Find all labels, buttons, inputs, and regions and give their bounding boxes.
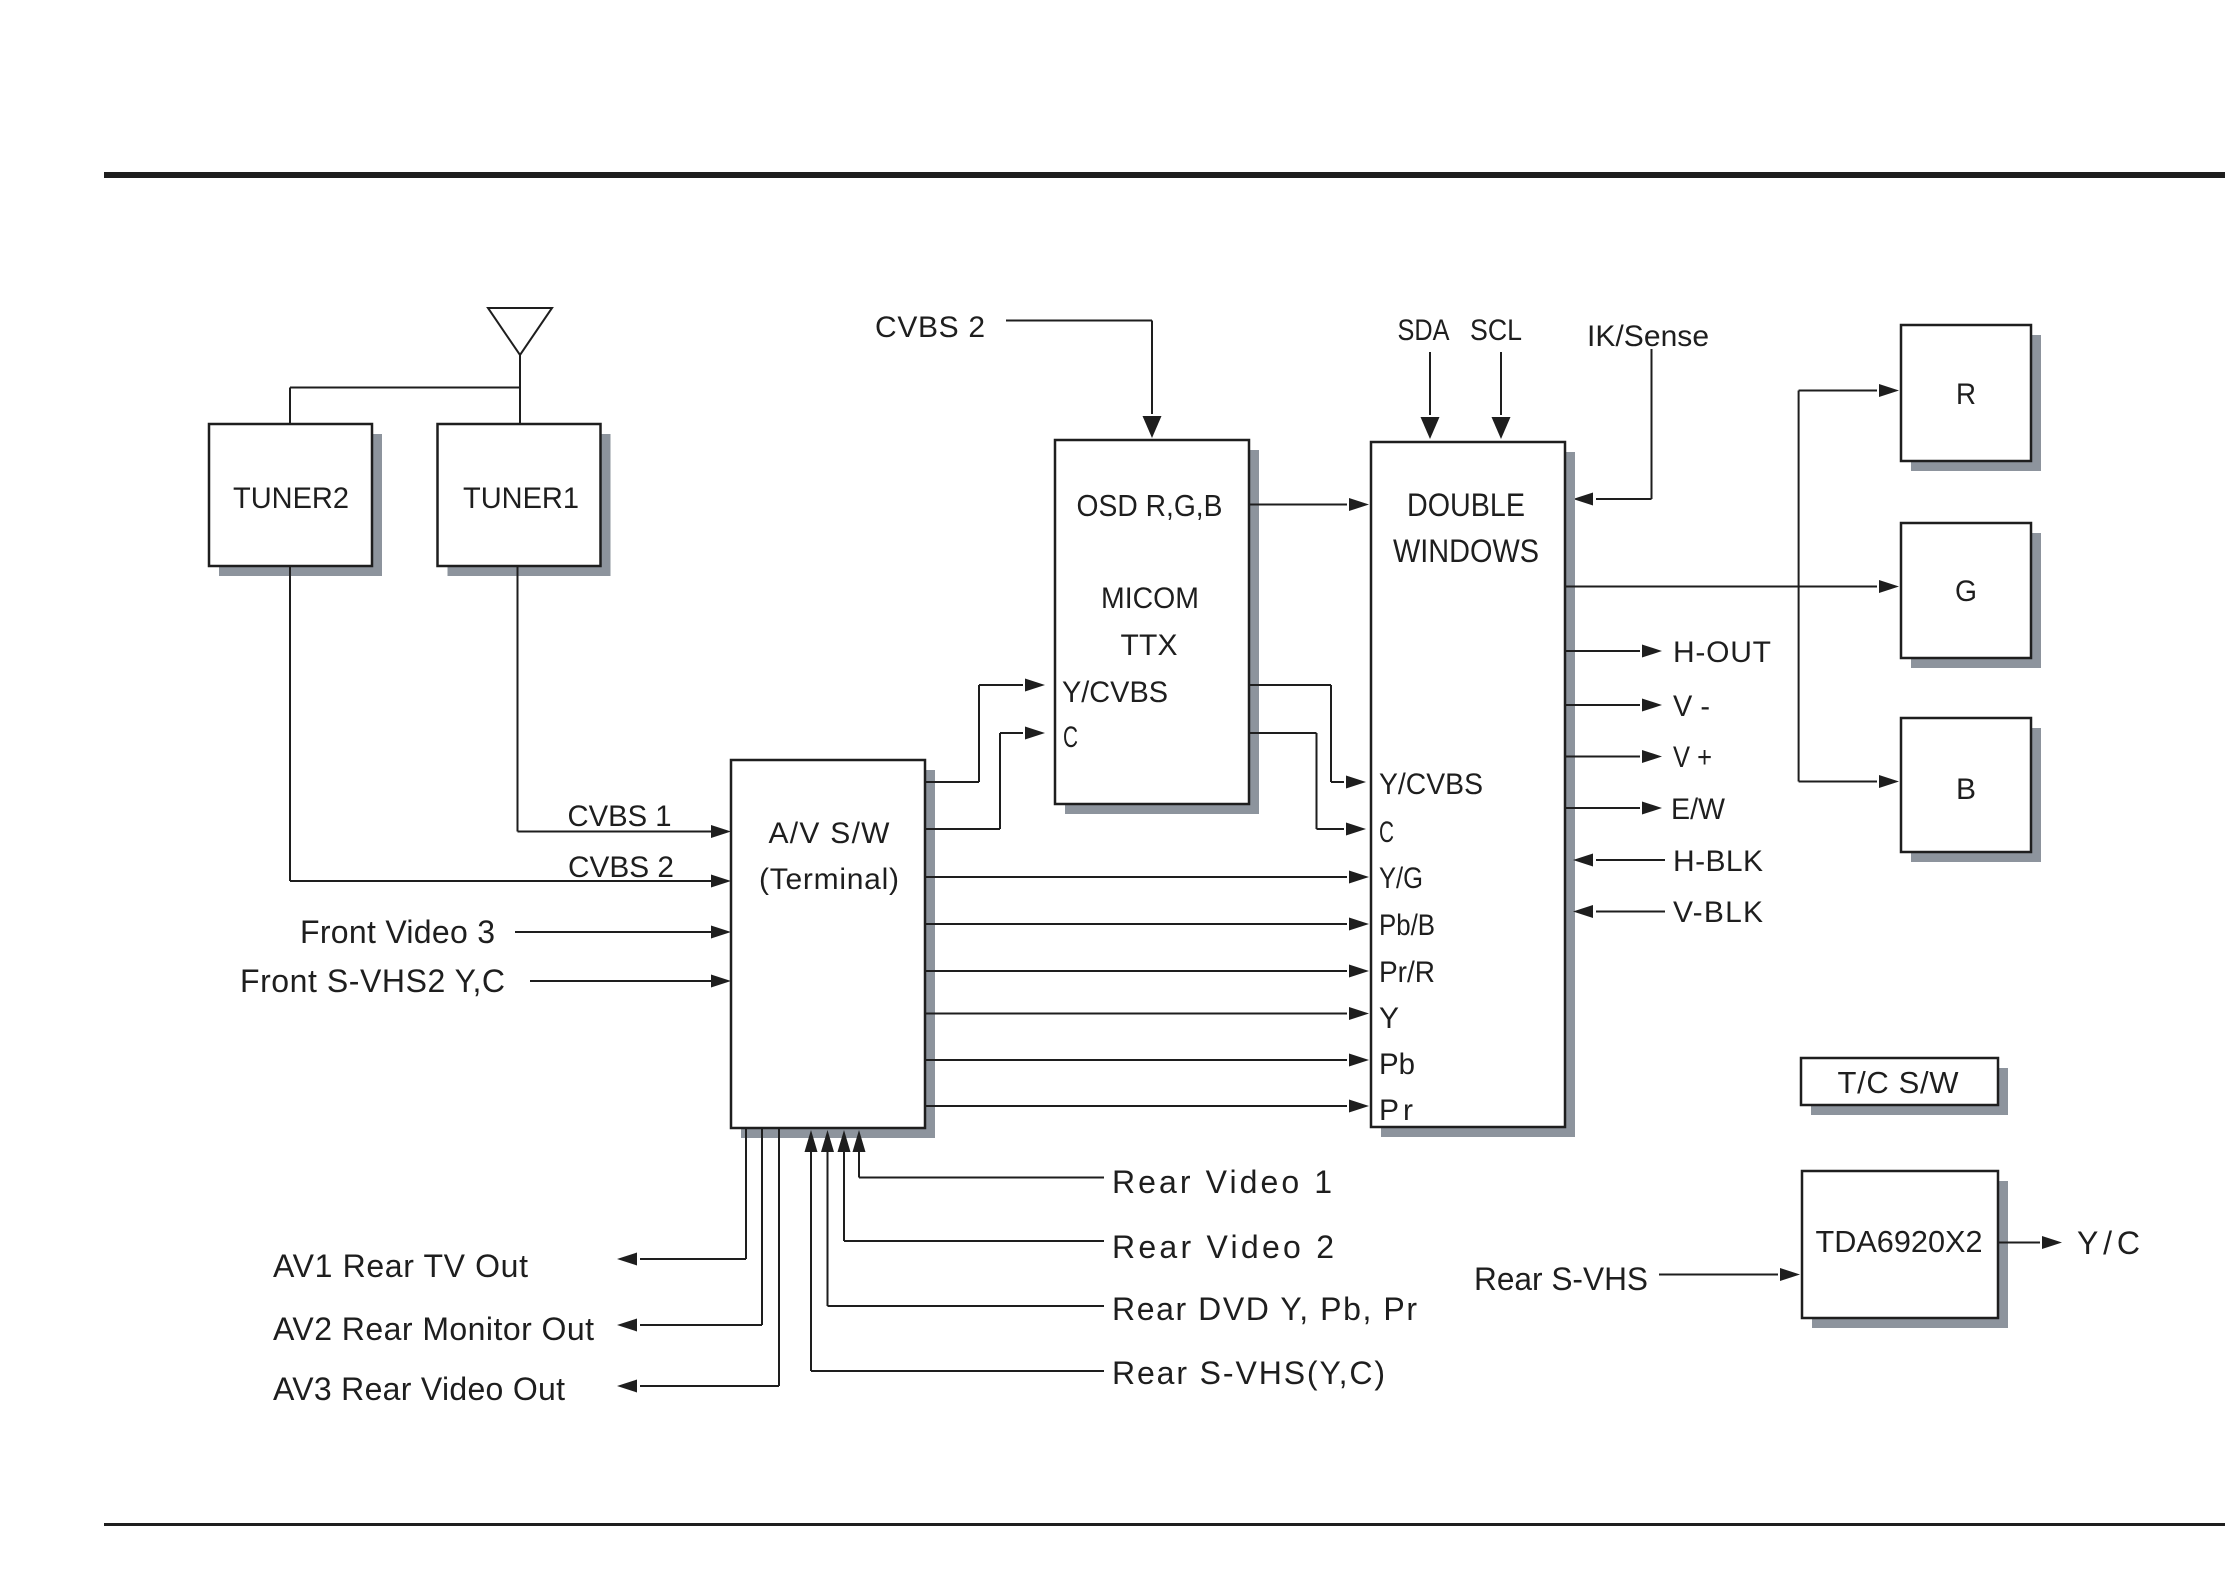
svg-text:Y/C: Y/C — [2077, 1225, 2140, 1261]
wire antenna splitter to TUNER2 — [290, 388, 520, 425]
svg-text:Y/CVBS: Y/CVBS — [1062, 676, 1168, 709]
block A/V S/W (Terminal) — [731, 760, 935, 1138]
antenna symbol — [488, 308, 552, 424]
svg-text:C: C — [1063, 721, 1078, 754]
wire TUNER1 down — [517, 566, 519, 832]
svg-text:Rear S-VHS: Rear S-VHS — [1474, 1261, 1648, 1297]
wire Front S-VHS2 Y,C — [530, 975, 731, 988]
wire SCL into DOUBLE top — [1492, 352, 1511, 439]
wire R line — [1799, 384, 1899, 397]
wire Pb — [925, 1054, 1369, 1067]
label Front S-VHS2 Y,C — [240, 963, 505, 999]
wire CVBS 1 into A/V S/W — [518, 825, 732, 838]
wire OSD R,G,B to DOUBLE — [1249, 498, 1369, 511]
svg-text:CVBS 2: CVBS 2 — [568, 851, 674, 884]
block G — [1901, 523, 2041, 668]
block T/C S/W — [1801, 1058, 2008, 1115]
svg-text:H-OUT: H-OUT — [1673, 636, 1771, 669]
label V-BLK — [1673, 896, 1763, 929]
svg-text:Front S-VHS2 Y,C: Front S-VHS2 Y,C — [240, 963, 505, 999]
label Front Video 3 — [300, 914, 495, 950]
block DOUBLE WINDOWS — [1371, 442, 1575, 1137]
wire Rear S-VHS(Y,C) input — [805, 1130, 1105, 1371]
svg-text:V-BLK: V-BLK — [1673, 896, 1763, 929]
svg-text:Pr: Pr — [1379, 1094, 1413, 1127]
label Rear DVD Y, Pb, Pr — [1112, 1291, 1417, 1327]
svg-text:A/V S/W: A/V S/W — [769, 817, 891, 850]
svg-text:TUNER1: TUNER1 — [463, 482, 579, 515]
wire V- — [1565, 699, 1662, 712]
block R — [1901, 325, 2041, 471]
svg-text:T/C S/W: T/C S/W — [1838, 1065, 1960, 1100]
label H-OUT — [1673, 636, 1771, 669]
wire SDA into DOUBLE top — [1421, 352, 1440, 439]
svg-text:E/W: E/W — [1671, 793, 1726, 826]
svg-text:Pb: Pb — [1379, 1048, 1415, 1081]
svg-text:CVBS 2: CVBS 2 — [875, 311, 985, 344]
label H-BLK — [1673, 845, 1763, 878]
wire H-BLK into DOUBLE — [1573, 854, 1665, 867]
svg-text:C: C — [1379, 816, 1394, 849]
svg-text:SCL: SCL — [1470, 314, 1522, 347]
wire Pr/R — [925, 965, 1369, 978]
wire MICOM C out to DOUBLE — [1249, 733, 1366, 836]
wire Pr — [925, 1100, 1369, 1113]
svg-text:IK/Sense: IK/Sense — [1587, 320, 1709, 353]
wire G line — [1565, 580, 1899, 593]
svg-text:B: B — [1956, 773, 1976, 806]
svg-text:V +: V + — [1673, 741, 1712, 774]
wire CVBS 2 into MICOM top — [1006, 321, 1162, 439]
svg-text:AV1 Rear TV Out: AV1 Rear TV Out — [273, 1248, 528, 1284]
svg-text:Rear Video 1: Rear Video 1 — [1112, 1164, 1332, 1200]
svg-text:TTX: TTX — [1121, 629, 1178, 662]
label CVBS 1 — [568, 800, 672, 833]
label SDA — [1398, 314, 1450, 347]
label IK/Sense — [1587, 320, 1709, 353]
wire Y — [925, 1007, 1369, 1020]
wire MICOM Y/CVBS out to DOUBLE — [1249, 685, 1366, 789]
block MICOM / TTX — [1055, 440, 1259, 814]
label Rear S-VHS — [1474, 1261, 1648, 1297]
svg-text:V -: V - — [1673, 690, 1710, 723]
wire IK/Sense into DOUBLE — [1573, 349, 1652, 506]
svg-text:SDA: SDA — [1398, 314, 1450, 347]
svg-text:TDA6920X2: TDA6920X2 — [1816, 1224, 1983, 1259]
svg-text:Y/CVBS: Y/CVBS — [1379, 768, 1483, 801]
wire V-BLK into DOUBLE — [1573, 905, 1665, 918]
svg-text:Rear S-VHS(Y,C): Rear S-VHS(Y,C) — [1112, 1355, 1385, 1391]
svg-text:AV3 Rear Video Out: AV3 Rear Video Out — [273, 1371, 565, 1407]
svg-text:(Terminal): (Terminal) — [759, 863, 899, 896]
label AV2 Rear Monitor Out — [273, 1311, 594, 1347]
svg-text:Rear Video 2: Rear Video 2 — [1112, 1229, 1334, 1265]
label Rear S-VHS(Y,C) — [1112, 1355, 1385, 1391]
wire A/V S/W Y/CVBS to MICOM — [925, 679, 1045, 783]
wire H-OUT — [1565, 645, 1662, 658]
label CVBS 2 — [568, 851, 674, 884]
wire Rear DVD input — [821, 1130, 1104, 1306]
label V+ — [1673, 741, 1712, 774]
wire Rear S-VHS into TDA6920X2 — [1659, 1268, 1800, 1281]
block TDA6920X2 — [1802, 1171, 2008, 1328]
svg-text:G: G — [1955, 575, 1977, 608]
block TUNER2 — [209, 424, 382, 576]
svg-text:Pr/R: Pr/R — [1379, 956, 1435, 989]
wire CVBS 2 into A/V S/W — [290, 875, 731, 888]
wire AV2 Rear Monitor Out — [617, 1128, 762, 1332]
svg-text:Front Video 3: Front Video 3 — [300, 914, 495, 950]
label SCL — [1470, 314, 1522, 347]
svg-text:OSD R,G,B: OSD R,G,B — [1077, 488, 1223, 523]
wire AV1 Rear TV Out — [617, 1128, 746, 1266]
label Rear Video 2 — [1112, 1229, 1334, 1265]
wire Y/G — [925, 871, 1369, 884]
label Rear Video 1 — [1112, 1164, 1332, 1200]
top rule — [104, 172, 2225, 178]
block B — [1901, 718, 2041, 862]
wire B line — [1799, 775, 1899, 788]
svg-text:H-BLK: H-BLK — [1673, 845, 1763, 878]
bottom rule — [104, 1523, 2225, 1526]
wire Rear Video 1 input — [853, 1130, 1105, 1178]
svg-text:WINDOWS: WINDOWS — [1393, 533, 1539, 569]
svg-text:AV2 Rear Monitor Out: AV2 Rear Monitor Out — [273, 1311, 594, 1347]
svg-text:Pb/B: Pb/B — [1379, 909, 1435, 942]
label AV1 Rear TV Out — [273, 1248, 528, 1284]
wire Rear Video 2 input — [838, 1130, 1105, 1241]
wire Pb/B — [925, 918, 1369, 931]
wire E/W — [1565, 802, 1662, 815]
label CVBS 2 top — [875, 311, 985, 344]
wire Y/C output — [1998, 1236, 2062, 1249]
label V- — [1673, 690, 1710, 723]
wire TUNER2 down — [289, 566, 291, 881]
svg-text:MICOM: MICOM — [1101, 582, 1199, 615]
label AV3 Rear Video Out — [273, 1371, 565, 1407]
wire AV3 Rear Video Out — [617, 1128, 779, 1393]
svg-text:TUNER2: TUNER2 — [233, 482, 349, 515]
block TUNER1 — [438, 424, 611, 576]
svg-text:CVBS 1: CVBS 1 — [568, 800, 672, 833]
wire V+ — [1565, 750, 1662, 763]
svg-text:R: R — [1956, 378, 1976, 411]
svg-text:DOUBLE: DOUBLE — [1407, 487, 1525, 523]
wire Front Video 3 — [515, 926, 731, 939]
wire RGB vertical — [1798, 391, 1800, 782]
label E/W — [1671, 793, 1726, 826]
svg-text:Y: Y — [1379, 1002, 1399, 1035]
svg-text:Y/G: Y/G — [1379, 862, 1423, 895]
wire A/V S/W C to MICOM — [925, 727, 1045, 830]
label Y/C — [2077, 1225, 2140, 1261]
